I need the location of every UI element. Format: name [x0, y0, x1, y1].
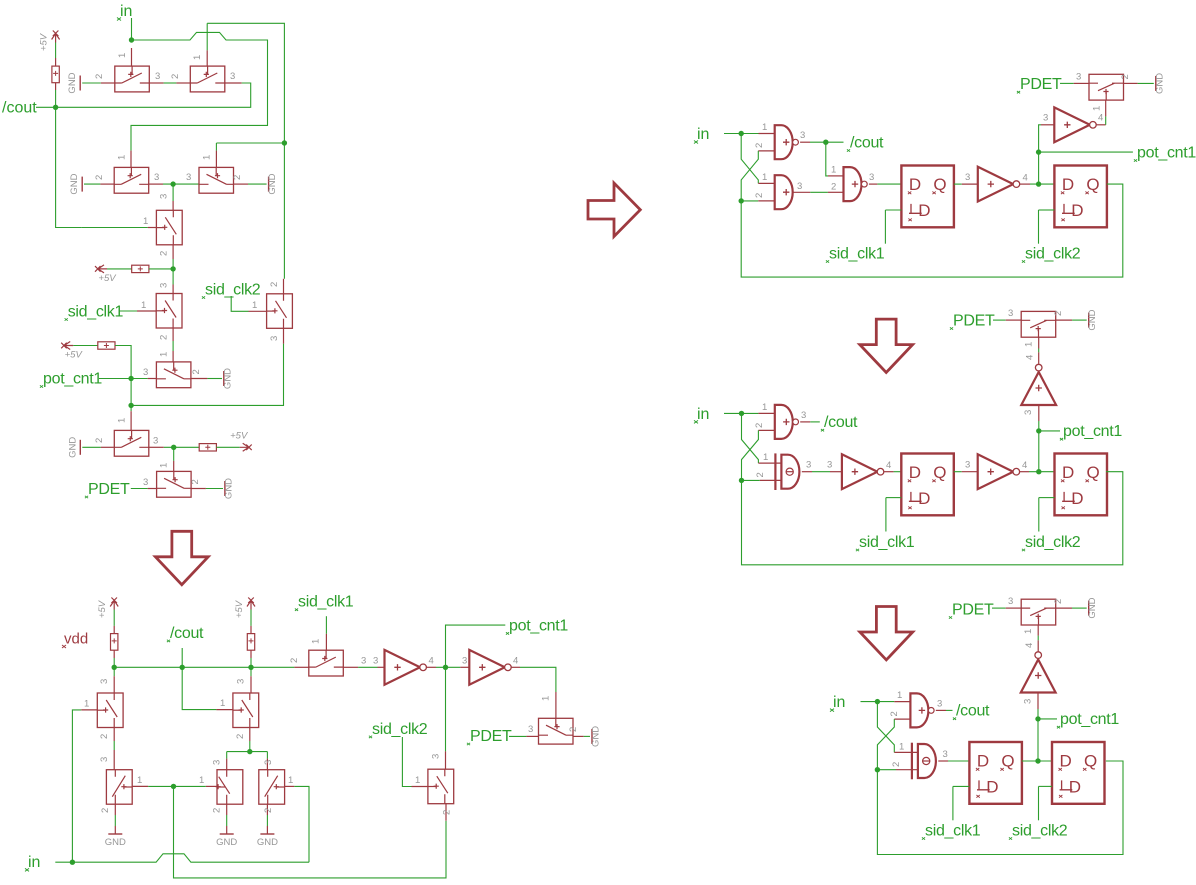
junction SW_A7 feed: [128, 403, 133, 408]
svg-text:3: 3: [806, 460, 811, 471]
svg-text:1: 1: [541, 696, 552, 701]
net label in (B): [694, 126, 709, 144]
wire XOR_D.3 to FF_D1.D: [948, 760, 969, 762]
wire rail to SW_E1.3: [113, 667, 115, 676]
wire in label to junction: [55, 861, 72, 863]
wire PDET label to SW_A10.3: [131, 488, 148, 490]
junction pot_cnt1: [128, 376, 133, 381]
wire junction to AND_B2.2: [741, 200, 758, 202]
D flip-flop FF_C2: [1055, 454, 1108, 516]
wire SW_E4.2 to GND: [226, 815, 228, 826]
pin U14A.4: [426, 666, 436, 668]
junction bottom row feed: [247, 749, 252, 754]
svg-text:2: 2: [94, 74, 105, 79]
svg-text:GND: GND: [105, 837, 126, 848]
wire +5V to R1: [55, 43, 57, 59]
pin SW_A5.2: [172, 245, 174, 259]
wire in label down: [131, 18, 133, 40]
wire NAND_B3.3 to FF_B1.D: [877, 183, 901, 185]
resistor R6: [247, 634, 254, 651]
wire junction up to inverter D: [1037, 709, 1039, 761]
wire in rail with hop: [72, 854, 309, 862]
pin NAND_D1.3: [936, 709, 946, 711]
svg-text:3: 3: [373, 656, 378, 667]
wire clock into FF_B2: [1039, 209, 1055, 211]
resistor R4: [199, 444, 216, 451]
svg-text:pot_cnt1: pot_cnt1: [509, 617, 568, 634]
D flip-flop FF_C1: [901, 454, 954, 516]
pin SW_A8.3: [148, 378, 157, 380]
svg-text:1: 1: [143, 216, 148, 227]
net label cout: [2, 100, 37, 117]
inverter U9A: [978, 454, 1020, 489]
svg-text:2: 2: [891, 762, 902, 767]
pin SW_E4.2: [226, 804, 228, 815]
svg-text:1: 1: [762, 172, 767, 183]
svg-text:1: 1: [159, 463, 170, 468]
svg-text:3: 3: [965, 172, 970, 183]
switch SW_C1 (PDET): [1021, 311, 1055, 337]
NAND gate U1A: [775, 125, 799, 159]
pin SW_E1.2: [113, 728, 115, 742]
net label pot_cnt1 C: [1060, 423, 1122, 440]
switch SW_A5: [156, 210, 182, 245]
svg-text:+5V: +5V: [98, 273, 117, 284]
switch SW_A7: [267, 294, 293, 329]
wire SW_D1.2 to GND: [1072, 607, 1087, 609]
svg-text:3: 3: [827, 460, 832, 471]
svg-text:2: 2: [263, 808, 274, 813]
svg-text:3: 3: [1023, 410, 1034, 415]
wire U4A out to FF_B2.D: [1030, 183, 1054, 185]
+5V supply P3: [61, 342, 83, 361]
svg-text:sid_clk2: sid_clk2: [1025, 246, 1081, 263]
pin SW_A10.2: [191, 488, 206, 490]
pin U8A.4: [884, 471, 894, 473]
svg-text:4: 4: [1024, 643, 1035, 648]
flow arrow C to D: [860, 607, 913, 660]
wire GND to SW_A3.2: [84, 183, 100, 185]
junction in node: [129, 37, 134, 42]
pin U13A.4: [1037, 640, 1039, 651]
wire SW_E3.1 to junction: [148, 785, 171, 787]
svg-text:3: 3: [99, 679, 110, 684]
wire to SW_A5.1: [106, 227, 148, 229]
svg-text:1: 1: [84, 699, 89, 710]
svg-text:4: 4: [886, 460, 891, 471]
junction PDET feed: [171, 445, 176, 450]
pin SW_E2.2: [249, 728, 251, 742]
wire GND to SW_A9.2: [82, 446, 101, 448]
svg-text:1: 1: [199, 775, 204, 786]
junction +5V row: [170, 266, 175, 271]
svg-text:1: 1: [415, 775, 420, 786]
pin U10A.3: [1038, 405, 1040, 421]
pin SW_A9.1: [130, 411, 132, 430]
svg-text:3: 3: [143, 367, 148, 378]
ground near SW_D1: [1087, 597, 1098, 618]
net label sid_clk1 B: [826, 246, 885, 263]
pin XOR_D.3: [938, 760, 948, 762]
svg-text:2: 2: [170, 74, 181, 79]
pin R6.2: [250, 650, 252, 658]
svg-text:in: in: [28, 854, 40, 871]
pin NAND_C1.3: [800, 421, 810, 423]
svg-text:2: 2: [190, 479, 201, 484]
svg-text:D: D: [1069, 778, 1081, 797]
wire sid_clk1 up: [884, 210, 886, 244]
switch SW_E3: [106, 770, 132, 805]
wire feedback B: [741, 184, 1123, 277]
wire pot_cnt1 C: [1039, 430, 1060, 432]
ground below SW_E5: [257, 834, 278, 848]
wire SW_A4.2 to GND: [248, 183, 267, 185]
svg-text:GND: GND: [1087, 309, 1098, 330]
switch SW_A1: [115, 66, 150, 92]
wire feedback C: [742, 472, 1123, 565]
svg-text:1: 1: [137, 775, 142, 786]
XOR gate U7A: [775, 453, 799, 490]
svg-text:pot_cnt1: pot_cnt1: [1063, 423, 1122, 440]
wire FF_C1.Q out: [954, 471, 962, 473]
inverter U13A: [1021, 652, 1056, 693]
wire pot_cnt1 E: [446, 625, 506, 667]
junction right rail: [282, 140, 287, 145]
svg-text:D: D: [977, 752, 989, 771]
svg-text:2: 2: [159, 251, 170, 256]
svg-text:3: 3: [99, 757, 110, 762]
pin SW_E3.2: [114, 804, 116, 815]
ground near SW_A8: [222, 368, 233, 389]
net label sid_clk2 C: [1022, 534, 1081, 551]
svg-text:/cout: /cout: [850, 135, 884, 152]
pin XOR_C.3: [802, 471, 812, 473]
junction stage D: [1035, 758, 1040, 763]
wire clock into FF_D2: [1039, 785, 1053, 787]
pin SW_C1.2: [1056, 319, 1072, 321]
net label pot_cnt1: [40, 371, 102, 388]
net label PDET B: [1017, 76, 1062, 93]
pin SW_A2.2: [176, 82, 190, 84]
svg-text:2: 2: [235, 734, 246, 739]
svg-text:3: 3: [937, 699, 942, 710]
wire SW_A4 control to right rail: [216, 142, 284, 144]
wire junction to XOR_D.2: [877, 769, 896, 771]
svg-text:3: 3: [361, 656, 366, 667]
switch SW_A2: [190, 66, 225, 92]
pin SW_D1.1: [1037, 625, 1039, 636]
svg-text:pot_cnt1: pot_cnt1: [1137, 145, 1196, 162]
svg-text:1: 1: [202, 155, 213, 160]
pin XOR_D.1: [894, 751, 918, 753]
inverter U4A: [978, 167, 1020, 202]
net label cout D: [953, 703, 990, 720]
ground near SW_A9: [67, 437, 80, 458]
svg-text:sid_clk1: sid_clk1: [829, 246, 885, 263]
pin R6.1: [250, 626, 252, 634]
pin SW_B1.2: [1124, 82, 1138, 84]
pin SW_E5.1: [285, 785, 295, 787]
svg-text:2: 2: [1053, 311, 1064, 316]
svg-text:3: 3: [263, 760, 274, 765]
svg-text:1: 1: [288, 775, 293, 786]
net label cout C: [821, 414, 858, 431]
svg-text:/cout: /cout: [956, 703, 990, 720]
svg-text:sid_clk1: sid_clk1: [68, 304, 124, 321]
wire NAND_D1.3 out: [946, 709, 953, 711]
pin SW_A6.3: [172, 285, 174, 294]
pin SW_A9.3: [149, 446, 164, 448]
wire NAND_C1.3 out: [810, 421, 820, 423]
wire SW_A2 control to right rail: [207, 23, 284, 143]
svg-text:Q: Q: [1087, 463, 1100, 482]
wire sid_clk2 to SW_E7.1: [402, 737, 411, 787]
wire U10A out up: [1038, 349, 1040, 353]
wire junction to SW_A5.3: [172, 184, 174, 201]
net label sid_clk2 E: [369, 721, 428, 738]
svg-text:3: 3: [869, 172, 874, 183]
pin SW_E3.3: [113, 750, 115, 770]
svg-text:1: 1: [192, 55, 203, 60]
svg-text:3: 3: [154, 172, 159, 183]
net label in: [117, 3, 132, 21]
svg-text:D: D: [1060, 752, 1072, 771]
svg-text:4: 4: [1025, 355, 1036, 360]
pin GND stub 3: [266, 826, 268, 834]
svg-text:1: 1: [159, 352, 170, 357]
wire R2 to junction: [149, 268, 173, 270]
pin SW_A6.2: [172, 328, 174, 341]
net label cout E: [167, 625, 204, 642]
wire SW_E5.1 down to in rail: [294, 786, 309, 862]
pin NAND_C1.1: [758, 412, 774, 414]
pin SW_E7.3: [445, 751, 447, 769]
svg-text:4: 4: [513, 656, 518, 667]
wire NAND_B1.2 diagonal to feedback: [741, 151, 758, 201]
wire SW_A5.2 down: [172, 259, 174, 269]
wire SW_A8.2 to GND: [207, 378, 222, 380]
wire U5A out up: [1105, 116, 1107, 124]
wire cout node down to SW_A5 control: [56, 107, 82, 227]
wire inverter node to SW_E7.2: [174, 786, 447, 878]
switch SW_B1 (PDET): [1089, 74, 1124, 100]
wire SW_B1.2 to GND: [1138, 82, 1154, 84]
svg-text:2: 2: [94, 438, 105, 443]
junction stage C: [1036, 469, 1041, 474]
svg-text:in: in: [833, 694, 845, 711]
net label PDET A: [85, 481, 130, 498]
svg-text:1: 1: [117, 418, 128, 423]
wire bottom row tops: [227, 751, 268, 753]
svg-text:pot_cnt1: pot_cnt1: [43, 371, 102, 388]
svg-text:PDET: PDET: [470, 728, 512, 745]
inverter U14A: [385, 650, 427, 685]
wire SW_E8.2 to GND: [584, 735, 590, 737]
pin SW_E6.2: [294, 666, 308, 668]
svg-text:1: 1: [117, 53, 128, 58]
svg-text:3: 3: [155, 71, 160, 82]
net label sid_clk2: [202, 282, 261, 299]
junction pot_cnt1 B: [1036, 149, 1041, 154]
svg-text:1: 1: [1024, 342, 1035, 347]
pin SW_E6.1: [325, 634, 327, 650]
inverter U8A: [842, 454, 884, 489]
wire AND_B2.3 to NAND_B3.2: [810, 191, 828, 193]
wire GND to SW_A1.2: [82, 82, 101, 84]
switch SW_A4: [199, 167, 234, 193]
svg-text:in: in: [697, 126, 709, 143]
wire junction up to inverter: [1038, 421, 1040, 472]
pin SW_E8.1: [555, 692, 557, 718]
ground below SW_E4: [216, 834, 237, 848]
pin SW_A8.1: [172, 351, 174, 362]
svg-text:sid_clk1: sid_clk1: [925, 823, 981, 840]
svg-text:D: D: [918, 489, 930, 508]
svg-text:2: 2: [889, 711, 900, 716]
svg-text:PDET: PDET: [1020, 76, 1062, 93]
net label sid_clk1 D: [922, 823, 981, 840]
wire pot node down: [130, 379, 132, 412]
wire SW_E1 control down to in: [72, 710, 81, 862]
switch SW_A3: [114, 167, 149, 193]
wire FF_B1.Q out: [954, 183, 962, 185]
svg-text:D: D: [1071, 489, 1083, 508]
svg-text:GND: GND: [67, 72, 78, 93]
junction cout E: [180, 665, 185, 670]
svg-text:1: 1: [831, 165, 836, 176]
switch SW_A9: [114, 430, 149, 456]
wire down to SW_A2 pin1: [206, 23, 208, 50]
junction feedback D: [875, 767, 880, 772]
svg-text:sid_clk2: sid_clk2: [1025, 534, 1081, 551]
pin U9A.3: [962, 471, 978, 473]
ground near SW_C1: [1087, 309, 1098, 330]
wire PDET label to SW_D1.3: [992, 607, 1006, 609]
svg-text:3: 3: [801, 410, 806, 421]
svg-text:/cout: /cout: [2, 100, 37, 117]
wire NAND_D1.2 diagonal to feedback D: [877, 719, 894, 770]
wire sid_clk1 down: [325, 616, 327, 634]
svg-text:GND: GND: [69, 173, 80, 194]
ground near SW_A10: [223, 478, 234, 499]
svg-text:1: 1: [141, 300, 146, 311]
wire +5V down: [113, 610, 115, 626]
wire sid_clk2 up: [1038, 210, 1040, 244]
resistor R1: [52, 66, 59, 83]
pin R1.2: [55, 83, 57, 90]
svg-text:D: D: [1071, 201, 1083, 220]
pin SW_D1.2: [1056, 607, 1072, 609]
pin SW_E8.3: [526, 735, 538, 737]
switch SW_E7: [428, 769, 454, 804]
svg-text:GND: GND: [257, 837, 278, 848]
svg-text:3: 3: [797, 181, 802, 192]
svg-text:3: 3: [230, 71, 235, 82]
NAND gate U6A: [775, 405, 799, 439]
net label PDET E: [467, 728, 512, 745]
svg-text:D: D: [1062, 175, 1074, 194]
svg-text:1: 1: [1092, 106, 1103, 111]
flow arrow A to E: [155, 531, 208, 584]
wire sid_clk1 up D: [952, 786, 954, 820]
wire U8A out to FF_C1.D: [894, 471, 902, 473]
wire SW_A2.3 to cout node: [36, 83, 251, 107]
ground near SW_A3: [69, 173, 82, 194]
pin XOR_D.2: [896, 769, 918, 771]
svg-text:2: 2: [831, 182, 836, 193]
svg-text:2: 2: [754, 193, 765, 198]
wire SW_E1.2 to SW_E3.3: [113, 741, 115, 750]
+5V supply P6: [234, 598, 255, 619]
junction vdd rail right: [248, 665, 253, 670]
net label in (C): [694, 406, 709, 424]
wire SW_A3.3 to SW_A4.3: [163, 183, 199, 185]
wire in to NAND_D1.1: [861, 701, 895, 703]
pin SW_A1.3: [149, 82, 163, 84]
net label cout B: [847, 135, 884, 152]
svg-text:3: 3: [143, 477, 148, 488]
switch SW_A6: [156, 294, 182, 329]
wire SW_E3.2 to GND: [114, 815, 116, 826]
svg-text:4: 4: [429, 656, 434, 667]
wire SW_E6.3 to buffer: [358, 666, 377, 668]
pin SW_E5.2: [266, 804, 268, 815]
svg-text:PDET: PDET: [88, 481, 130, 498]
pin SW_A7.1: [249, 310, 267, 312]
pin AND_B2.1: [758, 182, 774, 184]
wire to SW_E5.3: [266, 752, 268, 759]
svg-text:2: 2: [212, 808, 223, 813]
svg-text:D: D: [909, 463, 921, 482]
svg-text:4: 4: [1098, 113, 1103, 124]
svg-text:D: D: [986, 778, 998, 797]
svg-text:2: 2: [754, 143, 765, 148]
pin U5A.4: [1096, 124, 1106, 126]
+5V supply P1: [39, 31, 60, 52]
wire PDET label to SW_E8.3: [509, 735, 526, 737]
pin R5.2: [113, 650, 115, 658]
net label sid_clk1 E: [295, 594, 354, 611]
svg-text:+5V: +5V: [234, 599, 245, 618]
pin SW_E6.3: [343, 666, 358, 668]
svg-text:3: 3: [186, 172, 191, 183]
wire junction up to inverter U5A: [1039, 125, 1041, 184]
pin SW_A9.2: [101, 446, 114, 448]
svg-text:PDET: PDET: [952, 602, 994, 619]
svg-text:3: 3: [431, 754, 442, 759]
pin SW_C1.1: [1038, 337, 1040, 348]
svg-text:1: 1: [762, 122, 767, 133]
wire SW_A7.3 to pot node: [131, 344, 283, 406]
pin NAND_B3.1: [828, 175, 844, 177]
junction row2: [170, 181, 175, 186]
svg-text:1: 1: [220, 698, 225, 709]
svg-text:Q: Q: [1086, 175, 1099, 194]
wire +5V down 2: [250, 610, 252, 626]
wire SW_A10.2 to GND: [206, 488, 223, 490]
pin SW_E4.3: [226, 759, 228, 770]
switch SW_E5: [259, 770, 285, 805]
pin SW_A10.3: [148, 488, 157, 490]
svg-text:/cout: /cout: [824, 414, 858, 431]
svg-text:GND: GND: [67, 437, 78, 458]
svg-text:sid_clk2: sid_clk2: [205, 282, 261, 299]
wire in diagonal to XOR_D.1: [877, 702, 894, 753]
svg-text:3: 3: [153, 436, 158, 447]
switch SW_E8 (PDET): [539, 718, 574, 744]
pin U13A.3: [1037, 692, 1039, 709]
wire SW_A1.3 to SW_A2.2: [164, 82, 177, 84]
